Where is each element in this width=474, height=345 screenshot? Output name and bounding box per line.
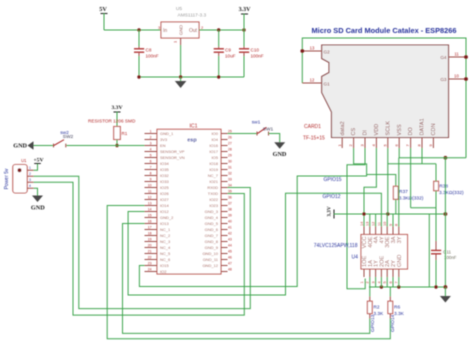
junction dot VSS line — [444, 156, 448, 160]
junction dot C9 top — [217, 28, 220, 31]
svg-text:GND_5: GND_5 — [205, 221, 219, 226]
svg-text:CS: CS — [351, 127, 357, 135]
resistor R1 — [114, 127, 128, 140]
svg-text:IC1: IC1 — [189, 124, 197, 130]
wire 1Y to gnd rail — [375, 277, 377, 287]
svg-text:4: 4 — [377, 281, 381, 283]
wire GND to sw2 — [34, 145, 54, 147]
svg-text:IO2: IO2 — [160, 269, 167, 274]
U4 pin 1 1OE — [360, 256, 368, 284]
svg-text:9: 9 — [389, 224, 393, 226]
junction dot GND stem — [179, 75, 182, 78]
svg-text:IO33: IO33 — [160, 179, 169, 184]
svg-text:TX0D: TX0D — [208, 191, 218, 196]
svg-text:3: 3 — [29, 178, 31, 182]
svg-text:IO18: IO18 — [209, 161, 218, 166]
svg-text:GPIO13: GPIO13 — [370, 314, 376, 332]
junction dot 3.3V / C10 — [242, 28, 245, 31]
svg-text:7: 7 — [395, 281, 399, 283]
svg-text:R1: R1 — [122, 131, 128, 136]
svg-text:12: 12 — [310, 78, 315, 83]
svg-text:IO34: IO34 — [160, 161, 169, 166]
svg-text:44: 44 — [228, 243, 232, 247]
svg-text:1: 1 — [150, 129, 152, 133]
svg-text:NC_2: NC_2 — [160, 233, 171, 238]
svg-text:+5V: +5V — [33, 158, 43, 164]
U4 pin 2 1A — [366, 260, 374, 284]
switch SW2 — [54, 130, 74, 147]
svg-text:42: 42 — [228, 231, 232, 235]
voltage regulator U5 — [158, 6, 206, 43]
card pin 6 VSS — [394, 124, 403, 148]
junction dot R1/EN — [115, 144, 118, 147]
svg-text:5: 5 — [383, 281, 387, 283]
svg-text:46: 46 — [228, 255, 232, 259]
svg-text:AMS1117-3.3: AMS1117-3.3 — [178, 13, 207, 19]
wire U1 pin2 to IC1 RX0D — [34, 176, 251, 308]
wire rail to 4A — [375, 214, 377, 227]
junction dot rail right — [444, 212, 448, 216]
wire 3.3V rail — [334, 213, 445, 215]
svg-text:3.3V: 3.3V — [239, 7, 252, 13]
svg-text:U1: U1 — [21, 158, 27, 163]
ground arrow left — [13, 141, 33, 149]
svg-text:GND: GND — [273, 151, 287, 158]
U4 pin 7 GND — [395, 255, 403, 284]
card pin 1 data2 — [337, 121, 346, 148]
svg-text:10: 10 — [148, 183, 152, 187]
svg-text:R2: R2 — [373, 305, 379, 311]
svg-text:IO14: IO14 — [160, 203, 169, 208]
svg-text:GND_3: GND_3 — [205, 209, 219, 214]
pin G2 — [302, 46, 330, 55]
svg-text:G1: G1 — [324, 82, 331, 87]
svg-text:48: 48 — [228, 267, 232, 271]
svg-text:23: 23 — [148, 261, 152, 265]
wire 1A to R2 — [369, 277, 371, 297]
svg-text:IO35: IO35 — [160, 167, 169, 172]
svg-text:19: 19 — [148, 237, 152, 241]
svg-text:11: 11 — [377, 222, 381, 226]
junction dot gnd rail right — [444, 285, 448, 289]
card pin 9 CDN — [428, 123, 437, 148]
svg-text:CARD1: CARD1 — [304, 124, 321, 130]
junction dot 2OE rail — [380, 285, 383, 288]
svg-text:RESISTOR 1206 SMD: RESISTOR 1206 SMD — [88, 119, 136, 124]
svg-text:15: 15 — [148, 213, 152, 217]
U4 pin 3 1Y — [372, 260, 380, 284]
svg-text:GPIO14: GPIO14 — [390, 314, 396, 332]
supply +5V at U1 — [33, 158, 43, 171]
svg-text:GND_1: GND_1 — [160, 131, 174, 136]
svg-text:U5: U5 — [176, 6, 182, 12]
supply 5V — [99, 6, 107, 14]
svg-text:30: 30 — [228, 159, 232, 163]
svg-text:CDN: CDN — [431, 123, 437, 135]
svg-text:SW1: SW1 — [263, 127, 274, 133]
svg-text:3.3KΩ(332): 3.3KΩ(332) — [439, 190, 464, 196]
svg-text:2: 2 — [29, 172, 31, 176]
svg-text:SCLK: SCLK — [385, 121, 391, 136]
svg-text:IO5: IO5 — [212, 155, 219, 160]
wire net GPIO14 (R6 to IC1 IO14) — [107, 206, 390, 339]
bottom rail of power section — [139, 76, 244, 78]
U4 pin 9 3A — [389, 224, 397, 243]
svg-text:6: 6 — [389, 281, 393, 283]
svg-text:22: 22 — [148, 255, 152, 259]
svg-text:GND: GND — [179, 24, 184, 35]
svg-text:20: 20 — [148, 243, 152, 247]
svg-text:4: 4 — [29, 184, 31, 188]
svg-text:IO15: IO15 — [160, 263, 169, 268]
capacitor C10 — [239, 30, 264, 77]
wire SW1 to ground — [269, 134, 280, 143]
wire rail to 3OE — [386, 214, 388, 227]
capacitor C9 — [214, 30, 236, 77]
svg-text:IO23: IO23 — [209, 203, 218, 208]
svg-text:IO12: IO12 — [160, 209, 169, 214]
svg-text:NC_7: NC_7 — [208, 173, 219, 178]
svg-text:SENSOR_VP: SENSOR_VP — [160, 149, 185, 154]
U4 pin 12 4A — [372, 222, 380, 244]
svg-text:GND_9: GND_9 — [205, 245, 219, 250]
svg-text:GND_11: GND_11 — [203, 257, 219, 262]
svg-text:NC_4: NC_4 — [160, 245, 171, 250]
wire net VDD to 3.3V rail — [364, 148, 376, 227]
junction dot 2Y rail — [397, 285, 400, 288]
svg-text:G4: G4 — [440, 55, 447, 60]
svg-text:GND: GND — [397, 255, 403, 267]
wire U5 out rail — [199, 29, 244, 31]
wire net GPIO13 (R2 to IC1 IO13) — [123, 224, 370, 334]
svg-text:IO27: IO27 — [160, 197, 169, 202]
wire net DI (card DI to U4 1OE) — [347, 148, 365, 289]
svg-text:DATA1: DATA1 — [420, 118, 426, 135]
svg-text:31: 31 — [228, 165, 232, 169]
IC1 esp module — [157, 124, 221, 275]
svg-text:2: 2 — [366, 281, 370, 283]
ground U5 — [175, 77, 187, 88]
svg-text:1: 1 — [29, 166, 31, 170]
svg-text:29: 29 — [228, 153, 232, 157]
svg-text:3.3V: 3.3V — [111, 105, 122, 111]
wire net R37 top — [367, 175, 396, 187]
svg-text:24: 24 — [148, 267, 152, 271]
svg-text:37: 37 — [228, 201, 232, 205]
svg-text:IO4: IO4 — [212, 137, 219, 142]
capacitor C11 — [431, 241, 457, 260]
svg-text:NC_6: NC_6 — [160, 257, 171, 262]
junction dot C8 bottom — [137, 75, 140, 78]
svg-text:IO21: IO21 — [209, 179, 218, 184]
svg-text:G3: G3 — [440, 77, 447, 82]
U4 pin 8 3Y — [395, 224, 403, 243]
supply 3.3V at R1 — [111, 105, 122, 127]
junction dot C11 rail — [434, 285, 437, 288]
svg-text:18: 18 — [148, 231, 152, 235]
wire R37 bottom to rail — [395, 199, 397, 214]
wire rail to 3A — [392, 214, 394, 227]
svg-text:Micro SD Card Module Catalex -: Micro SD Card Module Catalex - ESP8266 — [312, 26, 457, 35]
U4 pin 13 4OE — [366, 222, 374, 248]
svg-text:3V3: 3V3 — [160, 137, 168, 142]
svg-text:Out: Out — [189, 28, 198, 34]
svg-text:IO16: IO16 — [209, 143, 218, 148]
svg-text:40: 40 — [228, 219, 232, 223]
svg-text:DI: DI — [363, 130, 369, 136]
svg-text:NC_5: NC_5 — [160, 251, 171, 256]
svg-text:3,3V: 3,3V — [327, 206, 333, 216]
wire rail to 4OE — [369, 214, 371, 227]
svg-text:IO0: IO0 — [212, 131, 219, 136]
svg-text:32: 32 — [228, 171, 232, 175]
card pin 3 DI — [360, 130, 369, 148]
U5 GND pin wire — [180, 38, 182, 45]
wire unnamed vertical — [428, 214, 430, 287]
svg-text:8: 8 — [395, 224, 399, 226]
svg-text:13: 13 — [148, 201, 152, 205]
svg-text:2: 2 — [150, 135, 152, 139]
svg-text:3: 3 — [150, 141, 152, 145]
svg-text:9: 9 — [150, 177, 152, 181]
svg-text:GND_8: GND_8 — [205, 239, 219, 244]
IC1 left pins — [145, 129, 185, 274]
wire top rail to U5 In — [104, 29, 161, 31]
card pin 5 SCLK — [382, 121, 391, 148]
svg-text:74LVC125APW,118: 74LVC125APW,118 — [314, 243, 358, 249]
resistor R6 — [388, 287, 405, 319]
U4 pin 10 3OE — [383, 222, 391, 248]
svg-text:NC_3: NC_3 — [160, 239, 171, 244]
svg-text:IO32: IO32 — [160, 173, 169, 178]
svg-text:In: In — [163, 28, 167, 34]
IC1 right pins — [202, 129, 231, 271]
svg-text:35: 35 — [228, 189, 232, 193]
svg-text:14: 14 — [360, 222, 364, 226]
svg-text:8: 8 — [150, 171, 152, 175]
svg-text:11: 11 — [148, 189, 152, 193]
svg-text:36: 36 — [228, 195, 232, 199]
svg-text:5: 5 — [150, 153, 152, 157]
svg-text:4: 4 — [150, 147, 152, 151]
svg-text:25: 25 — [228, 129, 232, 133]
svg-text:28: 28 — [228, 147, 232, 151]
junction dot C8 top — [137, 28, 140, 31]
wire U4 gnd rail — [369, 286, 445, 288]
svg-text:39: 39 — [228, 213, 232, 217]
wire 2A to gnd rail — [386, 277, 388, 287]
resistor R2 — [367, 297, 384, 319]
wire GND pin to gnd rail — [398, 277, 400, 287]
wire 5V to rail — [103, 14, 105, 31]
pin G1 — [302, 78, 330, 87]
supply 3.3V top right — [239, 7, 252, 30]
svg-text:esp: esp — [187, 138, 197, 144]
svg-text:3Y: 3Y — [397, 236, 403, 243]
svg-text:1: 1 — [360, 281, 364, 283]
svg-text:TF-15+15: TF-15+15 — [303, 136, 325, 142]
svg-text:GND: GND — [13, 143, 27, 150]
ground U1 — [31, 188, 45, 211]
junction dot SCLK rail — [386, 212, 389, 215]
svg-text:26: 26 — [228, 135, 232, 139]
wire R38 top to DATA1 line — [435, 164, 437, 182]
ground right — [440, 287, 451, 303]
connector U1 Power 5v — [4, 158, 34, 193]
pin G4 — [440, 52, 466, 60]
svg-text:SW2: SW2 — [63, 134, 74, 140]
svg-text:NC_1: NC_1 — [160, 227, 171, 232]
svg-text:GPIO15: GPIO15 — [324, 177, 342, 183]
svg-text:17: 17 — [148, 225, 152, 229]
U4 pin 14 VCC — [360, 222, 368, 249]
svg-text:R6: R6 — [394, 305, 400, 311]
svg-text:G2: G2 — [324, 50, 331, 55]
svg-text:7: 7 — [150, 165, 152, 169]
junction dot VCC rail — [362, 212, 365, 215]
U4 pin 4 2OE — [377, 256, 385, 284]
switch SW1 — [228, 120, 274, 136]
wire 2OE to gnd rail — [380, 277, 382, 287]
card pin 8 DATA1 — [417, 118, 426, 148]
pin G3 — [440, 74, 466, 82]
svg-text:14: 14 — [148, 207, 152, 211]
svg-text:16: 16 — [148, 219, 152, 223]
svg-text:GPIO12: GPIO12 — [323, 194, 341, 200]
svg-text:3.3KΩ(332): 3.3KΩ(332) — [399, 195, 424, 201]
svg-text:10uF: 10uF — [225, 54, 236, 59]
svg-text:GND_12: GND_12 — [202, 263, 218, 268]
svg-text:12: 12 — [148, 195, 152, 199]
svg-text:C10: C10 — [251, 48, 260, 53]
wire card frame G2/G1/G4/G3 — [302, 38, 466, 158]
svg-text:100nF: 100nF — [146, 54, 159, 59]
svg-text:GND_2: GND_2 — [160, 215, 174, 220]
resistor R37 — [393, 186, 423, 201]
svg-text:EN: EN — [160, 143, 166, 148]
wire net DO / R38 bottom / C11 top — [411, 148, 436, 241]
svg-text:100nF: 100nF — [251, 54, 264, 59]
svg-text:27: 27 — [228, 141, 232, 145]
svg-text:VDD: VDD — [374, 124, 380, 136]
svg-text:11: 11 — [454, 52, 459, 57]
wire 2Y to gnd rail — [392, 277, 394, 287]
svg-text:33: 33 — [228, 177, 232, 181]
svg-text:R37: R37 — [399, 189, 408, 195]
svg-text:12: 12 — [372, 222, 376, 226]
svg-text:10: 10 — [454, 74, 459, 79]
supply 3.3V at rail — [327, 206, 335, 218]
svg-text:data2: data2 — [340, 121, 346, 135]
wire net GPIO12 (IC1 IO12 to U4 4Y) — [128, 193, 381, 295]
op-amp buffer U4 74LVC125 — [314, 235, 408, 270]
ground SW1 — [273, 142, 287, 158]
svg-text:C8: C8 — [146, 48, 152, 53]
svg-text:21: 21 — [148, 249, 152, 253]
svg-text:41: 41 — [228, 225, 232, 229]
card pin 2 CS — [348, 127, 357, 148]
U4 pin 11 4Y — [377, 222, 385, 243]
svg-text:Power 5v: Power 5v — [4, 168, 10, 189]
svg-text:VSS: VSS — [397, 124, 403, 135]
svg-text:3: 3 — [372, 281, 376, 283]
svg-text:GND: GND — [31, 205, 45, 212]
wire U1 pin3 to IC1 TX0D — [34, 182, 245, 315]
svg-text:DO: DO — [408, 127, 414, 135]
wire net SCLK/DATA1 — [388, 148, 436, 214]
capacitor C8 — [134, 30, 159, 77]
svg-text:GND_10: GND_10 — [202, 251, 218, 256]
svg-text:IO13: IO13 — [160, 221, 169, 226]
svg-text:C9: C9 — [225, 48, 231, 53]
svg-text:43: 43 — [228, 237, 232, 241]
card pin 7 DO — [405, 127, 414, 148]
U4 pin 6 2Y — [389, 260, 397, 284]
junction dot C9 bottom — [217, 75, 220, 78]
svg-text:6: 6 — [150, 159, 152, 163]
svg-text:SENSOR_VN: SENSOR_VN — [160, 155, 185, 160]
svg-text:IO26: IO26 — [160, 191, 169, 196]
svg-text:GND_7: GND_7 — [205, 233, 219, 238]
svg-text:13: 13 — [310, 46, 315, 51]
svg-text:IO19: IO19 — [209, 167, 218, 172]
wire net VSS — [399, 148, 466, 287]
svg-text:GND_6: GND_6 — [205, 227, 219, 232]
svg-text:IO17: IO17 — [209, 149, 218, 154]
wire net GPIO15 (CS to IC1 IO15) — [139, 148, 366, 287]
svg-text:38: 38 — [228, 207, 232, 211]
svg-text:GND_4: GND_4 — [205, 215, 219, 220]
svg-text:IO25: IO25 — [160, 185, 169, 190]
svg-text:5V: 5V — [99, 6, 107, 13]
svg-text:U4: U4 — [352, 255, 359, 261]
svg-text:10: 10 — [383, 222, 387, 226]
svg-text:47: 47 — [228, 261, 232, 265]
wire C11 bottom to gnd rail — [435, 260, 437, 287]
U4 pin 5 2A — [383, 260, 391, 284]
svg-text:13: 13 — [366, 222, 370, 226]
svg-text:C11: C11 — [443, 250, 452, 255]
svg-text:sw1: sw1 — [252, 120, 261, 126]
wire R1 to EN net — [116, 140, 118, 146]
resistor R38 — [434, 181, 464, 196]
svg-text:RX0D: RX0D — [207, 185, 218, 190]
svg-text:R38: R38 — [439, 184, 448, 190]
SD card CARD1 body — [303, 45, 449, 142]
card pin 4 VDD — [371, 124, 380, 148]
svg-text:34: 34 — [228, 183, 232, 187]
svg-text:100nF: 100nF — [444, 255, 457, 260]
svg-text:45: 45 — [228, 249, 232, 253]
svg-text:IO22: IO22 — [209, 197, 218, 202]
wire sw2 to IC1 EN — [67, 145, 145, 147]
